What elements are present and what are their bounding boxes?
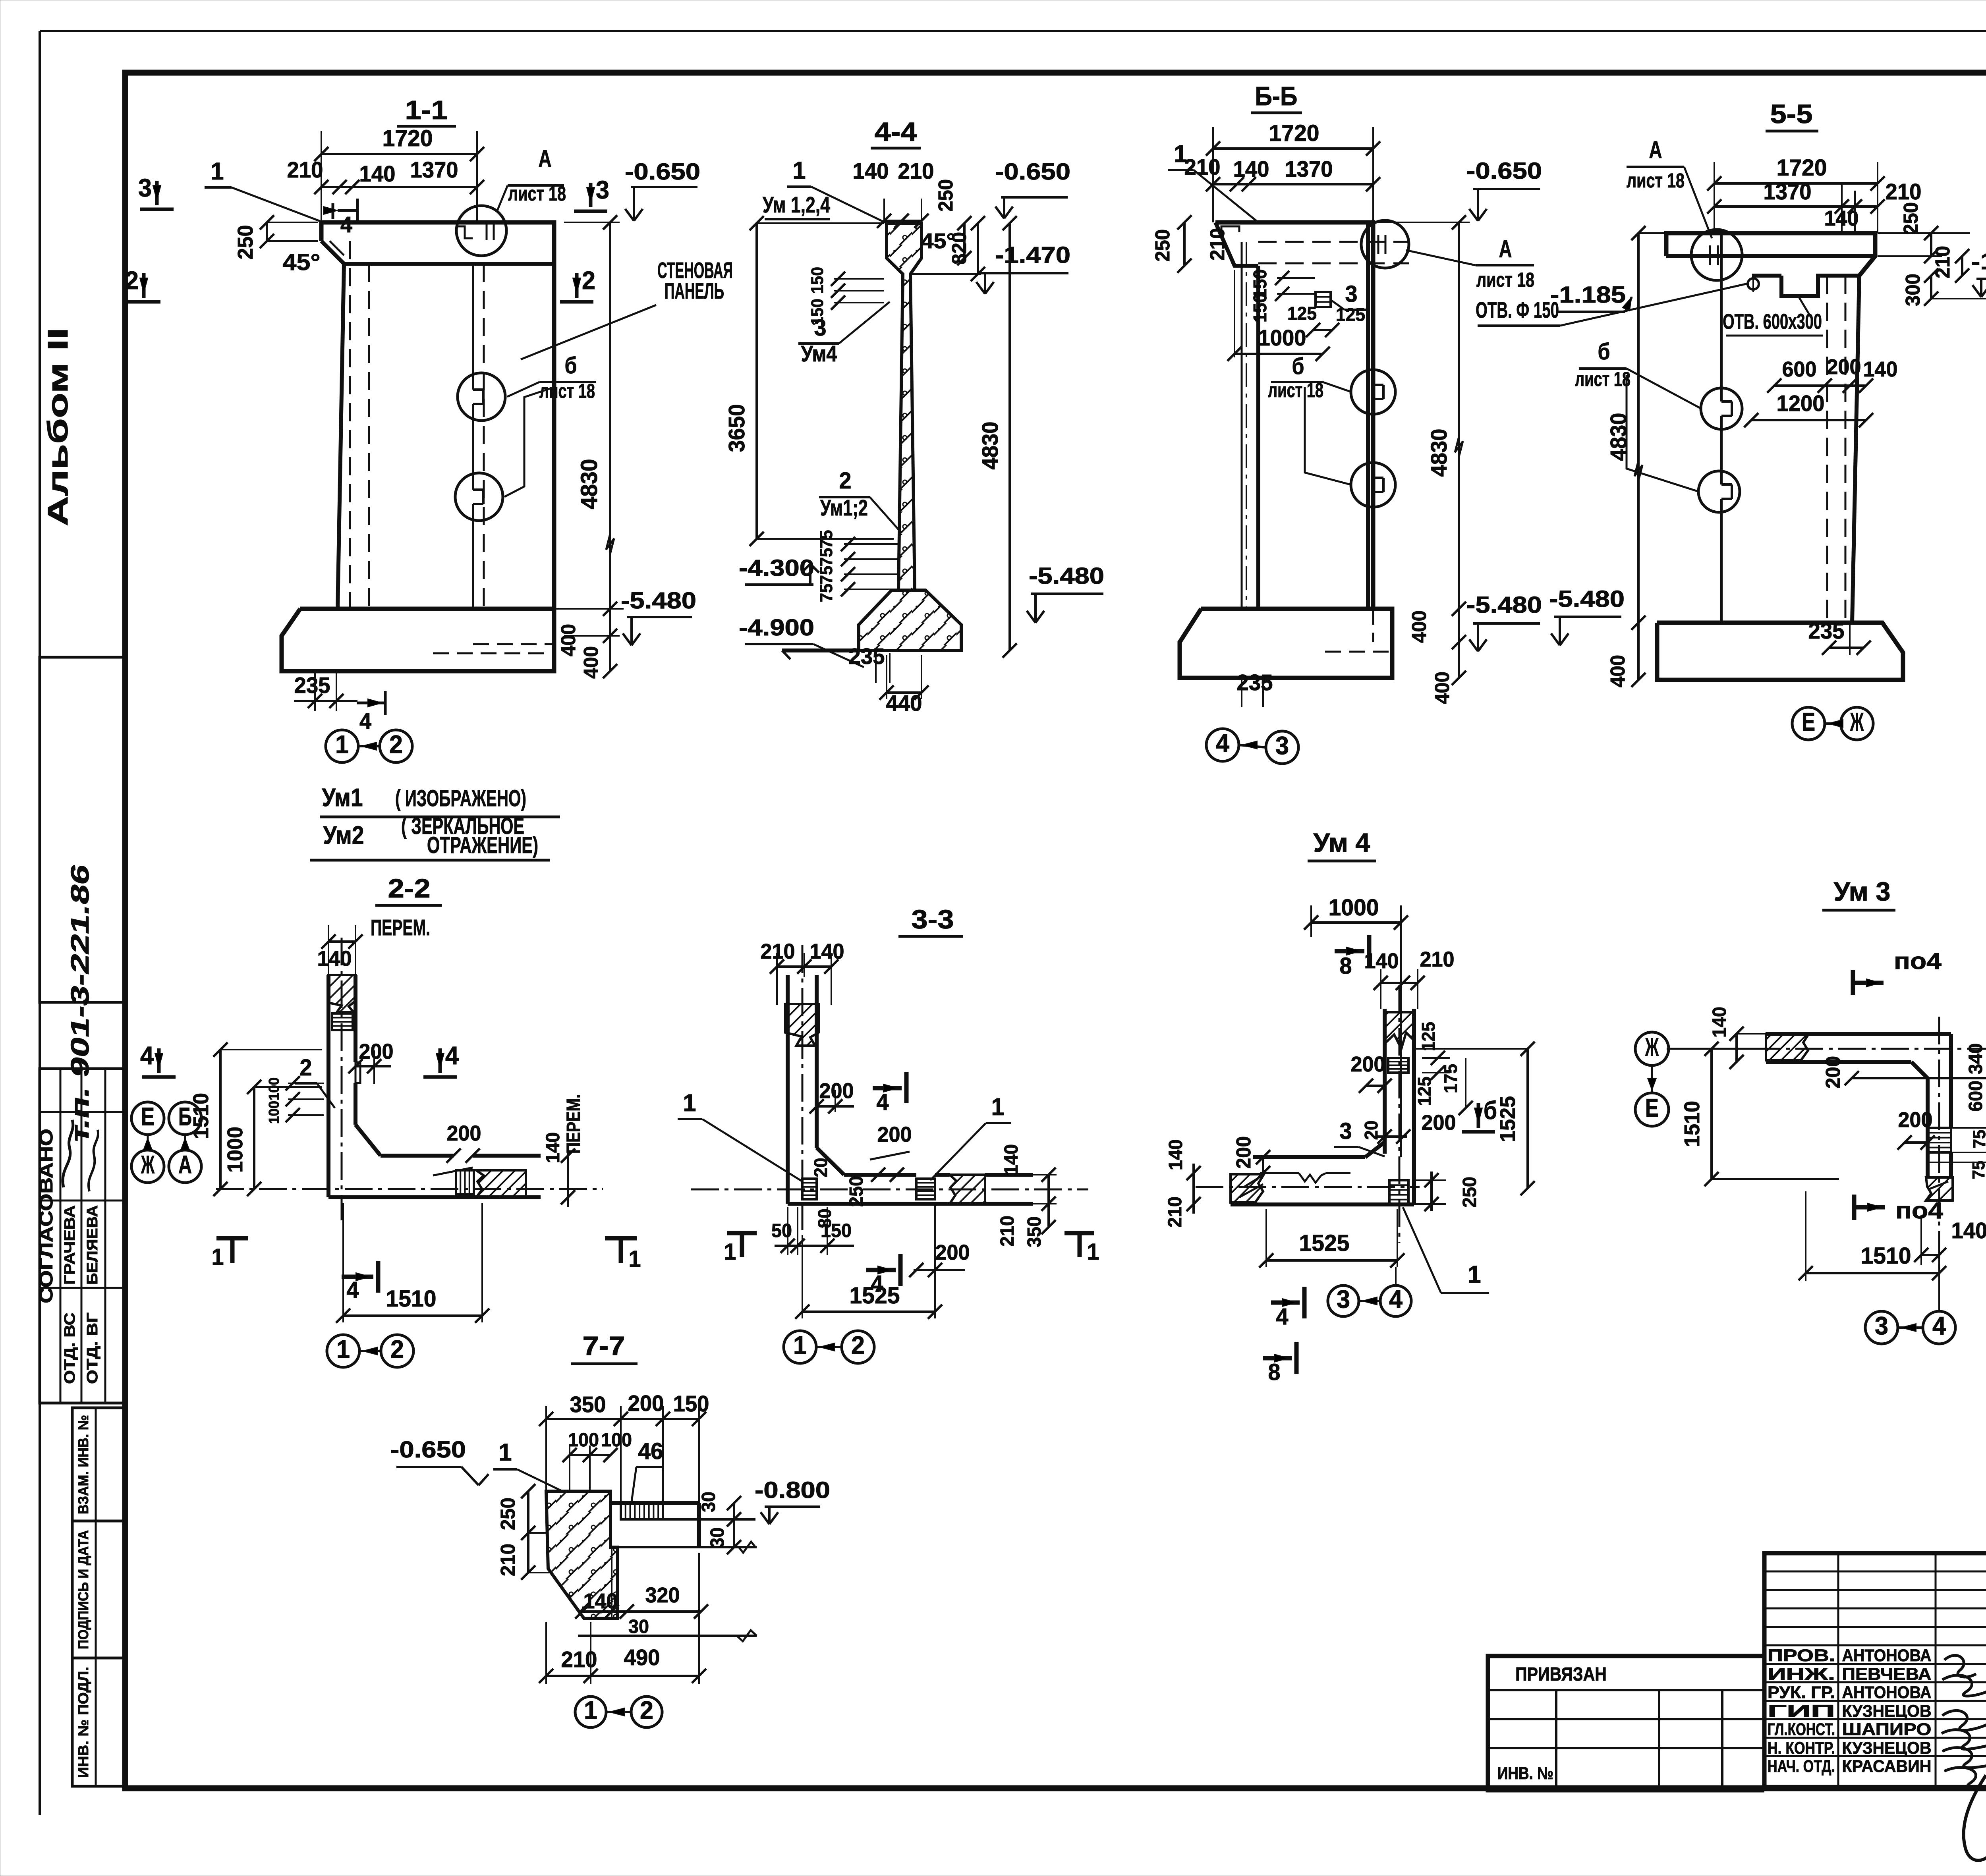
svg-text:1000: 1000 [223, 1127, 247, 1173]
section 5-5 dim 1200 [1744, 391, 1873, 427]
svg-text:140: 140 [542, 1132, 564, 1163]
section 2-2 label 2 [295, 1055, 335, 1108]
section 5-5 joint circle 1 [1701, 388, 1742, 429]
svg-text:Н. КОНТР.: Н. КОНТР. [1768, 1739, 1835, 1757]
left margin names [61, 1205, 101, 1384]
section Um3 title [1822, 877, 1895, 910]
section Um4 dim 250 right [1414, 1172, 1480, 1211]
section 1-1 mark 4 top [323, 199, 357, 237]
svg-text:210: 210 [561, 1647, 597, 1672]
section Um4 dims 140 210 [1364, 948, 1455, 1009]
title block staff table [1764, 1553, 1986, 1787]
svg-text:4830: 4830 [1426, 429, 1451, 477]
section Um3 dim 1510 bottom [1799, 1191, 1946, 1310]
section 1-1 level -5.480 [621, 588, 696, 645]
section Um3 axis vertical [1938, 1017, 1940, 1275]
section 7-7 label 46 [632, 1438, 664, 1502]
section 7-7 dims 140 320 30 [575, 1549, 708, 1637]
svg-text:7-7: 7-7 [583, 1332, 625, 1361]
svg-text:4: 4 [445, 1041, 459, 1070]
svg-text:210: 210 [898, 158, 934, 183]
section 4-4 level -4.300 [739, 555, 819, 585]
svg-text:210: 210 [496, 1544, 519, 1576]
svg-text:250: 250 [934, 179, 957, 212]
section 3-3 cut mark 1 left [724, 1233, 757, 1265]
section 4-4 label 3 Um4 [798, 302, 890, 366]
svg-text:1000: 1000 [1258, 325, 1306, 350]
section 7-7 level -0.650 [390, 1437, 489, 1485]
section 3-3 axis horizontal [691, 1189, 1088, 1191]
section Um4 dims 20 200 [1361, 1111, 1456, 1144]
svg-text:140: 140 [1165, 1139, 1186, 1170]
svg-text:по4: по4 [1894, 948, 1942, 974]
svg-text:400: 400 [1408, 610, 1430, 643]
svg-text:3: 3 [1345, 281, 1358, 307]
left margin signatures [63, 1120, 98, 1191]
svg-text:3: 3 [1275, 731, 1289, 760]
section 3-3 corner chamfer [817, 1148, 844, 1175]
section Um3 vertical strip [1928, 1034, 1951, 1177]
svg-text:Ум1;2: Ум1;2 [820, 495, 868, 520]
svg-text:210: 210 [1164, 1197, 1186, 1228]
section 1-1 mark 4 bottom [357, 691, 385, 733]
svg-text:Ум 1,2,4: Ум 1,2,4 [763, 192, 831, 217]
svg-text:210: 210 [1206, 228, 1229, 261]
svg-text:ИНВ. № ПОДЛ.: ИНВ. № ПОДЛ. [75, 1667, 91, 1778]
svg-text:140: 140 [1863, 357, 1898, 381]
svg-text:Ум1: Ум1 [322, 783, 363, 812]
section 3-3 dim 250 [846, 1176, 867, 1207]
svg-text:Ум4: Ум4 [801, 341, 838, 366]
svg-text:3: 3 [1875, 1312, 1888, 1340]
svg-text:2: 2 [300, 1055, 312, 1081]
section 5-5 dim 1370 210 [1707, 179, 1922, 233]
section 2-2 cut mark 4 right [423, 1041, 459, 1077]
section Um3 dim 200 rot [1822, 1056, 1986, 1089]
svg-text:3: 3 [138, 174, 152, 202]
svg-text:1: 1 [335, 730, 349, 759]
section 7-7 dims 210 490 [539, 1553, 706, 1684]
svg-text:-1.410: -1.410 [1971, 249, 1986, 274]
section B-B joint line [1373, 270, 1383, 642]
section 3-3 label 1 right [930, 1093, 1011, 1180]
svg-text:350: 350 [570, 1392, 606, 1417]
section 1-1 joint circle b2 [455, 473, 503, 521]
section 7-7 axis circles 1 2 [575, 1696, 662, 1728]
section 2-2 cut mark 4 bottom [342, 1261, 378, 1303]
section 2-2 axis circles 1 2 [327, 1335, 413, 1367]
svg-text:т.п. 901-3-221.86: т.п. 901-3-221.86 [66, 861, 94, 1145]
svg-text:по4: по4 [1895, 1198, 1943, 1224]
svg-text:2: 2 [640, 1696, 653, 1725]
section 5-5 hole phi150 [1748, 276, 1759, 292]
svg-text:50: 50 [771, 1220, 792, 1241]
section 1-1 dim 250 [234, 215, 318, 260]
svg-text:210: 210 [287, 157, 323, 182]
section Um4 title [1308, 828, 1376, 861]
svg-text:140: 140 [317, 947, 352, 971]
section 4-4 title [871, 118, 921, 148]
section Um3 block detail [1928, 1128, 1951, 1152]
svg-text:1720: 1720 [1777, 155, 1827, 181]
section Um3 left panel block [1766, 1034, 1809, 1060]
svg-text:200: 200 [628, 1391, 664, 1416]
section 5-5 circle A [1691, 230, 1742, 280]
section 2-2 vdim 1510 left [189, 1042, 322, 1196]
section 3-3 axis circles 1 2 [784, 1331, 874, 1363]
svg-text:100: 100 [568, 1429, 599, 1451]
svg-text:400: 400 [1606, 655, 1629, 687]
svg-text:ИНВ. №: ИНВ. № [1497, 1764, 1553, 1783]
svg-text:400: 400 [557, 624, 580, 656]
section 1-1 label 1 [205, 158, 323, 222]
section Um4 dim 200 strip [1232, 1136, 1270, 1180]
svg-text:46: 46 [638, 1438, 663, 1464]
section 1-1 vdim 400 400 [557, 624, 620, 679]
svg-text:ПРОВ.: ПРОВ. [1768, 1646, 1835, 1665]
section B-B label b list 18 [1268, 353, 1352, 485]
svg-text:4: 4 [359, 708, 372, 733]
svg-text:200: 200 [1351, 1052, 1385, 1076]
section 7-7 dims 250 210 left [496, 1484, 552, 1580]
left margin text SOGLASOVANO [36, 1129, 56, 1303]
svg-text:125: 125 [1287, 303, 1317, 324]
section 2-2 dims 100 100 [266, 1076, 324, 1124]
svg-text:ОТРАЖЕНИЕ): ОТРАЖЕНИЕ) [427, 832, 538, 858]
svg-text:-1.470: -1.470 [995, 242, 1070, 268]
section Um3 axis circles Zh E [1635, 1032, 1766, 1126]
title block staff names [1768, 1646, 1932, 1776]
svg-text:1: 1 [212, 1244, 224, 1270]
svg-text:250: 250 [234, 225, 257, 260]
svg-text:140: 140 [810, 940, 844, 963]
svg-text:КУЗНЕЦОВ: КУЗНЕЦОВ [1842, 1702, 1932, 1720]
section 2-2 right panel block [476, 1170, 526, 1197]
section 5-5 title [1766, 100, 1818, 131]
svg-text:Альбом II: Альбом II [42, 328, 74, 526]
svg-text:-5.480: -5.480 [621, 588, 696, 614]
svg-text:8: 8 [1268, 1359, 1281, 1385]
svg-text:1: 1 [793, 1331, 807, 1360]
section 1-1 axis circles 1 2 [326, 730, 412, 762]
section B-B dims 210 140 1370 [1184, 154, 1381, 191]
section 3-3 label 1 left [678, 1089, 802, 1181]
svg-text:ОТВ. Ф 150: ОТВ. Ф 150 [1476, 297, 1559, 322]
section 7-7 level -0.800 [755, 1477, 830, 1524]
section 7-7 shelf and comb [610, 1503, 757, 1553]
svg-text:1: 1 [1087, 1239, 1099, 1265]
section 5-5 vdim 400 [1606, 655, 1646, 687]
svg-text:-4.900: -4.900 [739, 615, 814, 641]
section B-B level -0.650 [1378, 158, 1542, 222]
section 3-3 cut mark 1 right [1064, 1233, 1099, 1265]
section Um4 horizontal strip [1231, 1142, 1414, 1204]
svg-text:-5.480: -5.480 [1466, 592, 1542, 618]
section 3-3 cut mark 4 top [873, 1072, 906, 1115]
svg-text:600: 600 [1965, 1081, 1986, 1112]
section 3-3 axis vertical [802, 945, 804, 1231]
svg-text:1: 1 [499, 1439, 512, 1466]
section 4-4 dims 75x4 [817, 530, 898, 602]
svg-text:125: 125 [1418, 1022, 1439, 1051]
svg-text:250: 250 [846, 1176, 867, 1207]
svg-text:440: 440 [886, 691, 922, 716]
svg-text:3-3: 3-3 [912, 905, 954, 934]
svg-text:КРАСАВИН: КРАСАВИН [1842, 1757, 1932, 1776]
section Um4 left panel block [1231, 1174, 1264, 1202]
svg-text:4: 4 [1389, 1285, 1403, 1314]
section B-B joint circle 2 [1351, 463, 1395, 507]
section Um3 axis circles 3 4 [1865, 1311, 1955, 1344]
svg-text:Е: Е [1645, 1094, 1659, 1122]
section 5-5 joint circle 2 [1698, 471, 1740, 512]
svg-text:А: А [178, 1150, 192, 1179]
label Um1 izobrazheno [320, 783, 560, 817]
section Um3 dim 200 low [1897, 1108, 1935, 1150]
svg-text:4830: 4830 [1606, 413, 1631, 461]
section Um4 axis vertical [1399, 985, 1401, 1243]
svg-text:1370: 1370 [1285, 156, 1333, 181]
svg-text:4830: 4830 [978, 422, 1003, 470]
svg-text:лист 18: лист 18 [1476, 268, 1534, 291]
section B-B dims 150 150 [1250, 269, 1315, 322]
section B-B dim 1000 [1227, 270, 1330, 361]
svg-text:( ИЗОБРАЖЕНО): ( ИЗОБРАЖЕНО) [395, 786, 526, 811]
svg-text:лист 18: лист 18 [508, 182, 566, 205]
svg-text:150: 150 [821, 1220, 852, 1241]
title block inv no text [1497, 1764, 1553, 1783]
section 2-2 dim 1510 bottom [336, 1203, 489, 1323]
section Um4 cut mark 4 left [1271, 1287, 1304, 1330]
svg-text:140: 140 [1824, 207, 1859, 230]
section 4-4 level -1.470 [910, 242, 1070, 294]
svg-text:3: 3 [814, 315, 827, 341]
section 4-4 text 45 deg [921, 229, 956, 253]
section 2-2 corner chamfer [355, 1125, 381, 1156]
svg-text:ПАНЕЛЬ: ПАНЕЛЬ [665, 278, 724, 303]
section B-B foundation [1180, 609, 1392, 678]
section Um3 dim 140 top [1709, 1007, 1766, 1069]
svg-text:Е: Е [141, 1102, 155, 1131]
svg-text:75: 75 [817, 530, 836, 549]
section 3-3 cut mark 4 bottom [866, 1254, 900, 1297]
svg-text:Б-Б: Б-Б [1255, 82, 1298, 111]
section 5-5 label A list18 [1627, 136, 1712, 238]
section 2-2 axis circles E B Zh A [131, 1102, 201, 1183]
section 2-2 axis vertical [341, 938, 343, 1220]
section B-B circle A [1361, 220, 1409, 268]
section 4-4 vdim 3650 [724, 216, 894, 546]
section Um3 horizontal strip [1766, 1034, 1951, 1078]
section Um4 vdim 1525 [1414, 1042, 1535, 1195]
section B-B dim 1720 [1206, 120, 1380, 222]
section 5-5 level -5.480 [1549, 586, 1625, 645]
section 4-4 level -5.480 [1027, 563, 1104, 623]
section 2-2 title [375, 874, 442, 905]
section 1-1 callout A list 18 [497, 145, 566, 210]
svg-text:-0.650: -0.650 [390, 1437, 466, 1463]
svg-text:30: 30 [707, 1527, 728, 1548]
section B-B cap [1215, 222, 1409, 609]
svg-text:5-5: 5-5 [1770, 100, 1813, 129]
svg-text:2: 2 [125, 266, 139, 295]
section 2-2 text perem top [321, 915, 430, 975]
svg-text:ОТД. ВС: ОТД. ВС [61, 1312, 78, 1384]
section 2-2 cut mark 1 right [605, 1238, 641, 1272]
svg-text:2: 2 [582, 266, 595, 295]
section 5-5 cap [1666, 233, 1875, 296]
section 2-2 dim 200 top [348, 1040, 394, 1084]
section Um4 cut mark 8 top [1335, 935, 1369, 979]
svg-text:140: 140 [1233, 156, 1269, 181]
svg-text:125: 125 [1336, 304, 1365, 325]
svg-text:ВЗАМ. ИНВ. №: ВЗАМ. ИНВ. № [75, 1415, 91, 1514]
svg-text:лист 18: лист 18 [539, 380, 595, 402]
svg-text:1000: 1000 [1329, 895, 1379, 921]
section 3-3 horizontal strip [788, 1175, 1033, 1204]
left margin text Album II [42, 328, 74, 526]
svg-text:ПЕВЧЕВА: ПЕВЧЕВА [1842, 1665, 1932, 1683]
section 7-7 label 1 [493, 1439, 564, 1492]
left margin box INV N PODL [72, 1658, 124, 1786]
svg-text:3: 3 [596, 176, 609, 204]
svg-text:лист 18: лист 18 [1627, 169, 1685, 192]
svg-text:45°: 45° [283, 249, 321, 275]
svg-text:1525: 1525 [1299, 1230, 1350, 1256]
section 3-3 comb right [916, 1179, 935, 1199]
section 5-5 dim 1720 [1707, 155, 1885, 233]
svg-text:200: 200 [877, 1123, 912, 1146]
svg-text:ШАПИРО: ШАПИРО [1842, 1720, 1932, 1739]
label Um2 zerkalnoe [310, 813, 550, 860]
section 5-5 label otv 600x300 [1723, 298, 1823, 336]
svg-text:320: 320 [645, 1583, 680, 1607]
svg-text:140: 140 [853, 158, 889, 183]
left margin box VZAM INV [72, 1408, 124, 1521]
section 2-2 vertical strip [328, 975, 355, 1197]
svg-text:200: 200 [1827, 355, 1861, 379]
section 2-2 cut mark 4 left [140, 1041, 176, 1077]
svg-text:лист 18: лист 18 [1268, 379, 1323, 401]
section 3-3 dim 200 upper [809, 1079, 854, 1114]
section 2-2 axis horizontal [216, 1188, 603, 1190]
section 1-1 cut mark 3 right [574, 176, 609, 211]
section 3-3 dims 50 150 [771, 1207, 854, 1255]
section 2-2 text perem right [563, 1094, 584, 1154]
section Um3 axis horizontal [1667, 1048, 1986, 1050]
svg-text:100: 100 [266, 1077, 282, 1100]
svg-text:лист 18: лист 18 [1575, 368, 1631, 390]
svg-text:250: 250 [1899, 202, 1922, 235]
svg-text:200: 200 [935, 1241, 970, 1264]
svg-text:1: 1 [683, 1089, 696, 1117]
section 4-4 dims 150 150 [808, 267, 884, 326]
svg-text:140: 140 [359, 161, 396, 186]
section 4-4 vdim 820 [948, 216, 985, 281]
svg-text:150: 150 [673, 1391, 709, 1416]
svg-text:-4.300: -4.300 [739, 555, 814, 581]
section 3-3 dim 200 mid [870, 1123, 912, 1182]
svg-text:1525: 1525 [850, 1283, 900, 1309]
section 3-3 comb left [802, 1179, 817, 1199]
svg-text:А: А [1649, 136, 1662, 164]
svg-text:Ум2: Ум2 [323, 821, 364, 849]
section 7-7 dims 100 100 [562, 1429, 632, 1491]
section 5-5 label -1.185 otv phi 150 [1476, 282, 1748, 326]
section 3-3 dim 1525 [795, 1203, 942, 1319]
svg-text:ГРАЧЕВА: ГРАЧЕВА [61, 1205, 78, 1285]
section 3-3 dim 200 bottom [909, 1241, 970, 1277]
svg-text:1370: 1370 [1764, 179, 1812, 204]
svg-text:1: 1 [1174, 140, 1187, 168]
svg-text:140: 140 [1001, 1144, 1022, 1175]
svg-text:75: 75 [817, 584, 836, 602]
section 3-3 right panel block [950, 1175, 985, 1204]
section 5-5 axis circles E Zh [1792, 707, 1873, 740]
svg-text:Ж: Ж [141, 1150, 155, 1179]
title block signatures scrawl [1942, 1655, 1986, 1860]
svg-text:1510: 1510 [386, 1286, 437, 1312]
section B-B dim 235 [1237, 670, 1273, 707]
svg-text:490: 490 [624, 1645, 660, 1670]
svg-text:250: 250 [496, 1498, 519, 1530]
section Um4 cut mark 8 bottom [1263, 1342, 1296, 1385]
section Um3 bottom panel block [1926, 1177, 1953, 1200]
section 5-5 vdim 4830 [1606, 226, 1666, 680]
section 4-4 dims 140 210 [853, 158, 934, 228]
section 4-4 level -4.900 [739, 615, 864, 667]
section 3-3 top panel block [785, 1004, 819, 1046]
svg-text:250: 250 [1459, 1177, 1480, 1208]
svg-text:Ум 3: Ум 3 [1834, 877, 1891, 907]
svg-text:2: 2 [390, 1335, 404, 1364]
svg-text:ГИП: ГИП [1768, 1702, 1835, 1720]
svg-text:1: 1 [1468, 1261, 1481, 1288]
svg-text:75: 75 [1970, 1130, 1986, 1148]
svg-text:А: А [539, 145, 552, 172]
section Um4 comb upper [1388, 1058, 1408, 1073]
svg-text:75: 75 [817, 548, 836, 567]
svg-text:б: б [1484, 1096, 1497, 1125]
svg-text:Б: Б [178, 1102, 192, 1131]
svg-text:200: 200 [1232, 1136, 1255, 1169]
svg-text:2: 2 [389, 730, 403, 759]
svg-text:8: 8 [1340, 953, 1352, 979]
svg-text:1370: 1370 [410, 157, 458, 182]
section 4-4 vdim 4830 [978, 216, 1017, 658]
svg-text:НАЧ. ОТД.: НАЧ. ОТД. [1768, 1757, 1835, 1776]
svg-text:1525: 1525 [1496, 1096, 1520, 1142]
svg-text:3650: 3650 [724, 404, 749, 452]
svg-text:20: 20 [810, 1158, 831, 1177]
svg-text:4-4: 4-4 [875, 118, 917, 147]
svg-text:1: 1 [336, 1335, 350, 1364]
section 4-4 dim 235 [849, 644, 890, 683]
section 7-7 dims 350 200 150 [539, 1391, 709, 1503]
section Um4 dim 1000 [1304, 895, 1408, 1157]
section Um3 cut mark po4 top [1853, 948, 1942, 995]
svg-text:150: 150 [1250, 293, 1270, 322]
section Um4 sawtooth notch [1299, 1173, 1326, 1183]
section 5-5 foundation [1657, 623, 1903, 680]
section 1-1 vdim 4830 [554, 215, 624, 671]
section 2-2 comb right [456, 1170, 474, 1194]
left margin approval table [40, 1069, 124, 1403]
section Um4 dim 200 left [1351, 1052, 1392, 1093]
left margin box PODPIS I DATA [72, 1521, 124, 1658]
section 5-5 dims right 250 210 300 [1878, 202, 1970, 306]
section 3-3 dim 20 [810, 1158, 831, 1177]
